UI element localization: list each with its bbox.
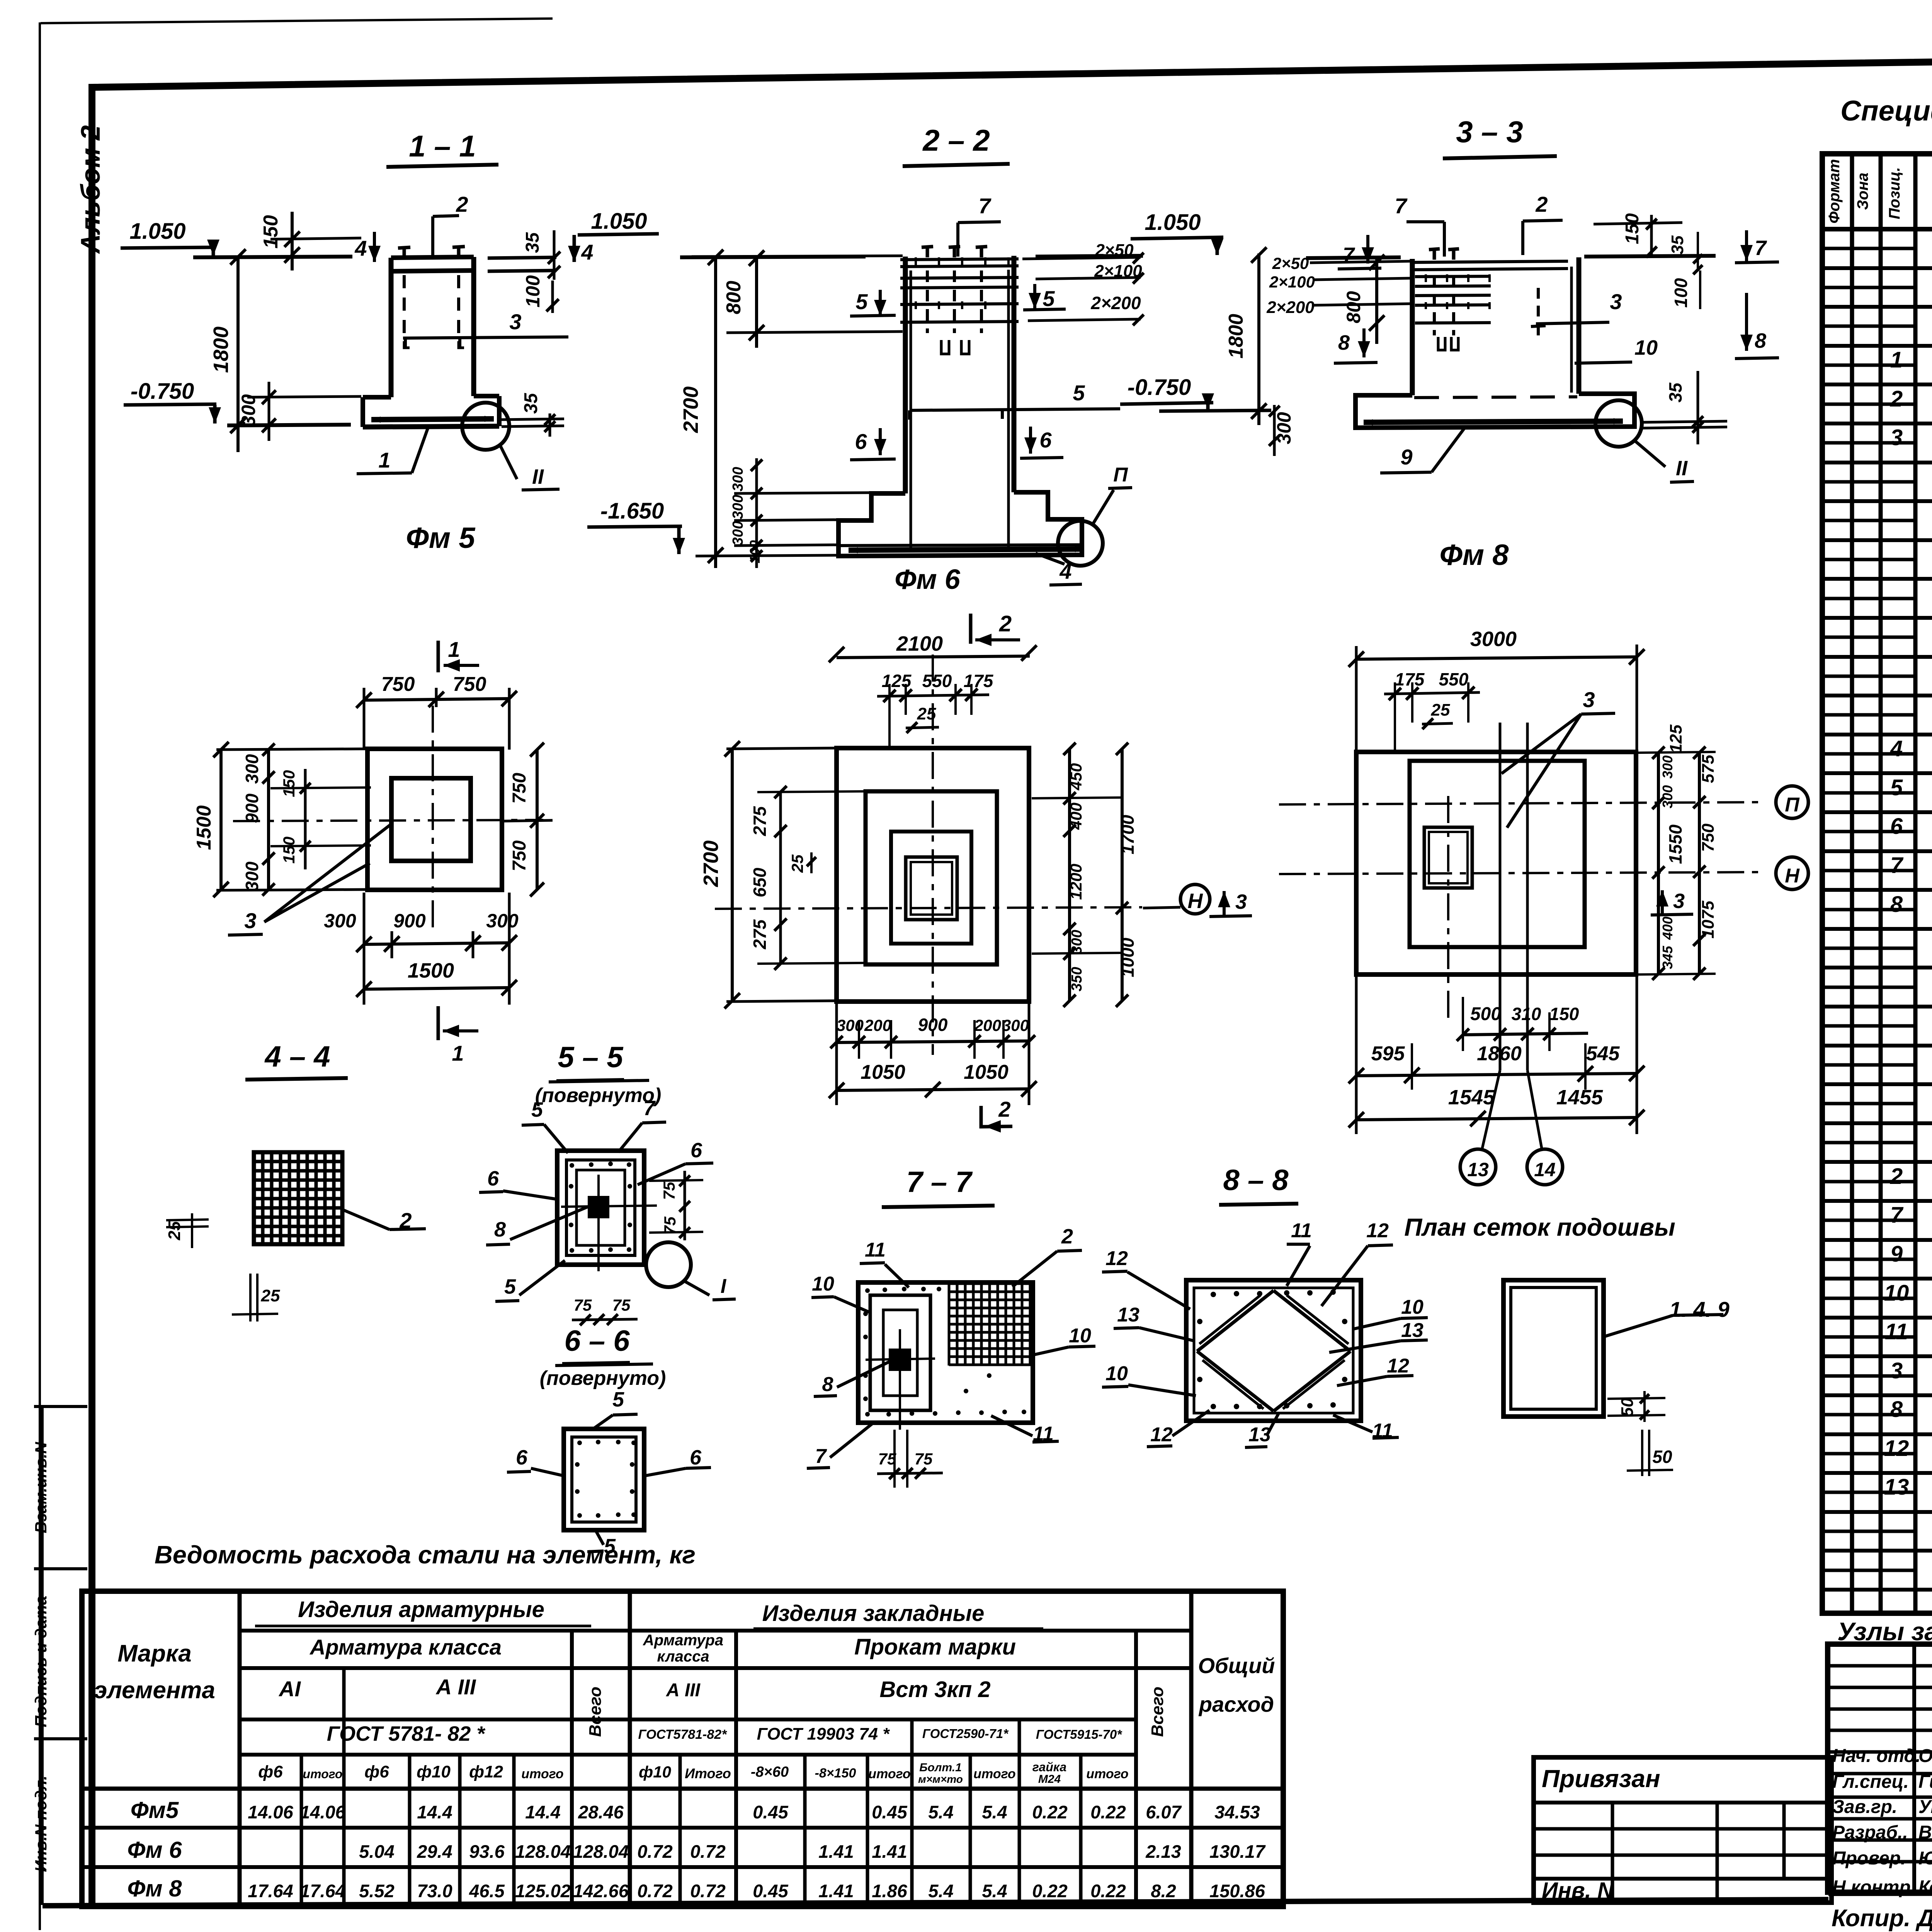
svg-text:Спецификация элементов фундаме: Спецификация элементов фундаментов Фм5,Ф…: [1840, 95, 1932, 127]
svg-text:2100: 2100: [896, 632, 943, 655]
plan FM6 vertical axis: [932, 655, 934, 1055]
svg-text:5.4: 5.4: [928, 1802, 953, 1822]
detail 8-8 outer rect: [1186, 1280, 1361, 1421]
svg-text:2: 2: [1535, 192, 1548, 216]
svg-text:5.52: 5.52: [359, 1881, 394, 1901]
svg-text:3000: 3000: [1470, 628, 1517, 651]
detail 8-8 diamond braces: [1274, 1291, 1350, 1351]
detail circle II on 1-1: [462, 403, 509, 450]
svg-text:3: 3: [1890, 1358, 1903, 1383]
anchor hooks 2-2: [941, 340, 949, 354]
svg-text:2700: 2700: [699, 840, 723, 887]
svg-text:300: 300: [242, 861, 262, 891]
mesh C1-1 in footing: [371, 419, 494, 420]
detail 4-4 mesh square: [254, 1152, 342, 1244]
svg-text:8.2: 8.2: [1151, 1881, 1176, 1901]
svg-text:8: 8: [1890, 892, 1903, 917]
svg-text:итого: итого: [973, 1767, 1015, 1781]
svg-text:14.06: 14.06: [248, 1802, 293, 1822]
svg-text:10: 10: [812, 1273, 834, 1295]
detail 5-5 rebar dots: [570, 1163, 574, 1168]
svg-text:14.06: 14.06: [300, 1802, 345, 1822]
frame bottom line: [43, 1900, 1828, 1906]
section mark 6 right: [1029, 427, 1032, 454]
plan FM8 section mark 3 right: [1651, 914, 1693, 915]
svg-text:4: 4: [581, 240, 593, 264]
plan FM8 axis circle H: [1776, 857, 1808, 889]
svg-text:350: 350: [1069, 967, 1085, 991]
svg-text:650: 650: [750, 867, 770, 897]
plan FM8 middle rect: [1410, 761, 1585, 947]
svg-text:6: 6: [1890, 814, 1903, 839]
svg-text:73.0: 73.0: [417, 1881, 452, 1901]
section mark 4 right: [573, 235, 576, 262]
svg-text:12: 12: [1884, 1436, 1909, 1461]
svg-text:-0.750: -0.750: [131, 379, 194, 404]
plan FM6 right dim line outer: [1121, 748, 1124, 1002]
svg-text:итого: итого: [303, 1767, 343, 1781]
svg-text:ГОСТ 5781- 82 *: ГОСТ 5781- 82 *: [327, 1722, 486, 1745]
svg-text:2.13: 2.13: [1145, 1841, 1181, 1862]
svg-text:128.04: 128.04: [515, 1841, 571, 1862]
svg-text:2×100: 2×100: [1269, 273, 1315, 291]
anchor bolt top left: [403, 247, 406, 258]
plan FM6 horizontal axis H: [715, 907, 1142, 909]
svg-text:35: 35: [1665, 382, 1685, 403]
detail circle I on 5-5: [646, 1242, 691, 1287]
svg-text:Изделия закладные: Изделия закладные: [762, 1601, 985, 1626]
svg-text:345: 345: [1660, 946, 1675, 969]
svg-text:100: 100: [1671, 278, 1691, 308]
svg-text:Общий: Общий: [1198, 1653, 1275, 1678]
svg-text:545: 545: [1586, 1043, 1620, 1065]
svg-text:900: 900: [393, 910, 426, 932]
svg-text:35: 35: [1668, 235, 1687, 254]
detail 5-5 inner rect: [577, 1170, 625, 1245]
sheet outer scan edge top: [41, 19, 553, 23]
svg-text:300: 300: [1002, 1016, 1029, 1034]
svg-text:595: 595: [1371, 1043, 1405, 1065]
svg-text:150.86: 150.86: [1209, 1881, 1265, 1901]
detail circle P on 2-2: [1058, 521, 1103, 566]
svg-text:275: 275: [750, 806, 770, 836]
svg-text:275: 275: [750, 919, 770, 949]
svg-text:Болт.1: Болт.1: [919, 1761, 962, 1774]
svg-text:0.72: 0.72: [690, 1841, 725, 1862]
svg-text:400: 400: [1067, 803, 1085, 830]
svg-text:ф10: ф10: [639, 1763, 671, 1781]
svg-text:25: 25: [1431, 701, 1450, 719]
svg-text:1: 1: [1890, 347, 1903, 372]
detail 7-7 mesh grid: [948, 1284, 951, 1366]
svg-text:3: 3: [244, 908, 256, 933]
slab band lines top of FM8: [1414, 261, 1568, 262]
level line -0.750 on 2-2: [1159, 410, 1271, 411]
anchor bolt tops 3-3: [1433, 249, 1436, 260]
svg-text:Изделия арматурные: Изделия арматурные: [298, 1597, 544, 1622]
svg-text:35: 35: [522, 232, 543, 253]
svg-text:2×50: 2×50: [1272, 254, 1309, 272]
svg-text:8: 8: [822, 1373, 833, 1396]
svg-text:125: 125: [1667, 724, 1685, 753]
svg-text:(повернуто): (повернуто): [535, 1084, 662, 1107]
svg-text:750: 750: [509, 840, 530, 871]
svg-text:0.45: 0.45: [753, 1802, 788, 1822]
svg-text:5: 5: [1043, 286, 1055, 311]
svg-text:7: 7: [1755, 236, 1767, 260]
svg-text:1075: 1075: [1699, 901, 1718, 939]
svg-text:Величко: Величко: [1918, 1822, 1932, 1843]
steel table outer frame: [82, 1591, 1283, 1906]
anchor bolt dashed left: [403, 275, 406, 341]
detail 7-7 outer square: [858, 1282, 1033, 1423]
detail 7-7 cross lines: [899, 1329, 901, 1430]
svg-text:3 – 3: 3 – 3: [1456, 115, 1523, 149]
svg-text:300: 300: [730, 521, 746, 545]
svg-text:П: П: [1113, 464, 1128, 486]
svg-text:1.050: 1.050: [1145, 210, 1201, 235]
svg-text:-8×60: -8×60: [751, 1764, 789, 1780]
svg-text:2: 2: [998, 1097, 1010, 1121]
svg-text:34.53: 34.53: [1214, 1802, 1260, 1822]
svg-text:1800: 1800: [209, 327, 233, 373]
svg-text:10: 10: [1105, 1362, 1128, 1385]
svg-text:50: 50: [1618, 1398, 1637, 1417]
svg-text:7: 7: [1395, 194, 1408, 218]
plan FM6 column rect: [906, 857, 957, 920]
plan FM8 right dims col 1: [1657, 752, 1660, 975]
svg-text:750: 750: [1699, 823, 1718, 852]
svg-text:300: 300: [1069, 930, 1085, 954]
svg-text:1.41: 1.41: [872, 1841, 907, 1862]
svg-text:итого: итого: [521, 1767, 563, 1781]
svg-text:Итого: Итого: [685, 1765, 731, 1781]
detail 5-5 black square: [588, 1196, 609, 1218]
svg-text:7: 7: [1890, 853, 1904, 878]
svg-text:0.45: 0.45: [872, 1802, 907, 1822]
plan FM8 bar line 14: [1526, 723, 1529, 1070]
svg-text:128.04: 128.04: [573, 1841, 629, 1862]
svg-text:1550: 1550: [1665, 824, 1685, 864]
svg-text:7: 7: [1890, 1202, 1904, 1228]
plan FM8 right dims col 2: [1698, 752, 1701, 975]
ground line left of footing: [227, 425, 351, 425]
anchor dashed bars in 2-2: [926, 270, 929, 333]
svg-text:125: 125: [882, 671, 912, 691]
foundation FM5 column outline: [391, 257, 474, 258]
svg-text:300: 300: [238, 394, 259, 427]
svg-text:125.02: 125.02: [515, 1881, 571, 1901]
svg-text:900: 900: [918, 1015, 948, 1035]
svg-text:75: 75: [915, 1450, 933, 1468]
svg-text:II: II: [1676, 457, 1688, 480]
svg-text:Разраб..: Разраб..: [1832, 1822, 1908, 1843]
svg-text:75: 75: [660, 1182, 678, 1200]
svg-text:Инв. N: Инв. N: [1542, 1878, 1614, 1903]
detail 5-5 cross lines: [597, 1175, 600, 1271]
steel table verticals: [238, 1591, 242, 1906]
svg-text:1.050: 1.050: [129, 219, 185, 244]
title block stamp rows: [1828, 1664, 1932, 1668]
svg-text:10: 10: [1069, 1325, 1091, 1347]
svg-text:8: 8: [494, 1218, 506, 1241]
svg-text:310: 310: [1512, 1004, 1541, 1024]
svg-text:3: 3: [1673, 889, 1685, 913]
svg-text:750: 750: [509, 773, 530, 804]
svg-text:Ведомость расхода стали на эле: Ведомость расхода стали на элемент, кг: [155, 1541, 696, 1569]
svg-text:Взам.инв.N: Взам.инв.N: [32, 1441, 50, 1533]
ground level line left of 1-1: [193, 257, 352, 257]
svg-text:2700: 2700: [679, 386, 702, 433]
svg-text:1700: 1700: [1117, 815, 1138, 854]
svg-text:класса: класса: [657, 1648, 709, 1665]
svg-text:1500: 1500: [193, 805, 215, 850]
ground line right of 2-2: [1036, 256, 1143, 257]
svg-text:Привязан: Привязан: [1542, 1765, 1660, 1793]
spec table narrow column extra lines: [1822, 247, 1915, 250]
svg-text:12: 12: [1387, 1355, 1409, 1377]
svg-text:11: 11: [1291, 1219, 1312, 1242]
sheet outer scan edge left: [39, 22, 41, 1930]
svg-text:Арматура класса: Арматура класса: [309, 1635, 502, 1659]
svg-text:450: 450: [1067, 763, 1085, 791]
svg-text:1: 1: [448, 637, 460, 662]
plan FM5 center axis horizontal: [233, 820, 543, 821]
ground line left of 2-2: [680, 257, 866, 257]
svg-text:1050: 1050: [861, 1061, 905, 1083]
svg-text:150: 150: [260, 215, 282, 249]
svg-text:(повернуто): (повернуто): [540, 1367, 666, 1389]
svg-text:0.45: 0.45: [753, 1881, 788, 1901]
svg-text:м×м×то: м×м×то: [918, 1773, 963, 1785]
svg-text:Нач. отд.: Нач. отд.: [1832, 1746, 1921, 1766]
svg-text:9: 9: [1890, 1242, 1903, 1267]
svg-text:2 – 2: 2 – 2: [922, 123, 990, 157]
left strip divider 2: [34, 1567, 87, 1570]
svg-text:Узлы замаркированы по серии: Узлы замаркированы по серии 1.412.1- 6. …: [1837, 1617, 1932, 1646]
privyazan table row line: [1534, 1801, 1832, 1804]
svg-text:8: 8: [1890, 1397, 1903, 1422]
svg-text:Фм 6: Фм 6: [895, 564, 960, 595]
svg-text:300: 300: [242, 754, 262, 784]
svg-text:142.66: 142.66: [573, 1881, 629, 1901]
plan FM6 inner rect: [891, 832, 971, 944]
svg-text:12: 12: [1150, 1423, 1173, 1446]
svg-text:Фм 6: Фм 6: [127, 1837, 182, 1863]
steel table data row lines: [82, 1826, 1283, 1830]
svg-text:75: 75: [612, 1296, 631, 1314]
svg-text:130.17: 130.17: [1209, 1841, 1266, 1862]
svg-text:17.64: 17.64: [300, 1881, 345, 1901]
svg-text:9: 9: [1400, 445, 1412, 469]
svg-text:Фм 8: Фм 8: [1440, 539, 1509, 571]
svg-text:Арматура: Арматура: [643, 1632, 723, 1649]
ground line right of 3-3: [1584, 256, 1716, 257]
svg-text:5.4: 5.4: [982, 1802, 1007, 1822]
svg-text:4: 4: [354, 236, 367, 260]
plan FM5 outer square: [367, 749, 502, 890]
svg-text:Формат: Формат: [1826, 159, 1843, 224]
svg-text:5: 5: [855, 289, 868, 314]
svg-text:25: 25: [788, 854, 806, 873]
svg-text:5.4: 5.4: [928, 1881, 953, 1901]
svg-text:ф10: ф10: [417, 1762, 451, 1781]
svg-text:А III: А III: [435, 1675, 476, 1699]
svg-text:II: II: [532, 465, 544, 488]
mesh bars top of FM8 column: [1415, 276, 1491, 277]
svg-text:300: 300: [1660, 755, 1675, 779]
svg-text:5: 5: [531, 1098, 543, 1121]
section mark 7 right: [1745, 230, 1748, 261]
svg-text:11: 11: [865, 1239, 886, 1261]
svg-text:4: 4: [1890, 736, 1903, 761]
svg-text:итого: итого: [868, 1767, 910, 1781]
section mark 5 right: [1033, 284, 1036, 309]
svg-text:25: 25: [165, 1221, 184, 1240]
svg-text:6: 6: [487, 1167, 499, 1190]
svg-text:0.22: 0.22: [1090, 1881, 1126, 1901]
plan FM5 section mark 1 bottom: [437, 1006, 440, 1040]
svg-text:1455: 1455: [1556, 1086, 1603, 1109]
svg-text:1500: 1500: [408, 959, 454, 982]
svg-text:13: 13: [1467, 1159, 1489, 1180]
plan FM8 axis circle P: [1776, 786, 1808, 818]
svg-text:1000: 1000: [1117, 937, 1138, 977]
anchor bolt dashed right: [457, 275, 460, 341]
svg-text:550: 550: [1439, 669, 1469, 689]
svg-text:1860: 1860: [1477, 1043, 1522, 1065]
svg-text:гайка: гайка: [1032, 1760, 1066, 1774]
foundation FM8 footing: [1355, 394, 1634, 428]
plan FM8 position circle 13: [1460, 1149, 1496, 1185]
svg-text:14: 14: [1534, 1159, 1556, 1180]
svg-text:14.4: 14.4: [417, 1802, 452, 1822]
svg-text:5: 5: [504, 1275, 516, 1298]
svg-text:1200: 1200: [1067, 864, 1085, 900]
mesh C-4 bottom of footing: [849, 549, 1084, 550]
svg-text:Позиц.: Позиц.: [1886, 167, 1903, 219]
plan FM6 axis circle H: [1180, 884, 1210, 914]
column FM8 inner face line: [1570, 267, 1573, 393]
svg-text:35: 35: [521, 393, 541, 414]
plan FM5 center axis vertical: [432, 706, 434, 930]
svg-text:1 – 1: 1 – 1: [409, 129, 476, 163]
svg-text:Онищенко: Онищенко: [1918, 1746, 1932, 1766]
spec table header bottom: [1822, 227, 1932, 231]
svg-text:4 – 4: 4 – 4: [264, 1040, 330, 1073]
detail 8-8 dots: [1211, 1292, 1216, 1297]
plan FM8 column rect: [1424, 827, 1472, 888]
svg-text:8: 8: [1338, 331, 1350, 354]
svg-text:14.4: 14.4: [525, 1802, 560, 1822]
svg-text:ф12: ф12: [469, 1762, 503, 1781]
svg-text:12: 12: [1366, 1219, 1389, 1242]
svg-text:Зав.гр.: Зав.гр.: [1832, 1797, 1897, 1817]
spec table outer frame: [1822, 154, 1932, 1613]
svg-text:0.22: 0.22: [1032, 1881, 1067, 1901]
detail 7-7 black square: [889, 1349, 911, 1371]
svg-text:13: 13: [1401, 1319, 1423, 1342]
anchor dashed bars 3-3: [1433, 277, 1436, 335]
slab extension lines right of 1-1: [488, 257, 556, 258]
foundation FM6 footing steps: [838, 492, 1082, 556]
svg-text:2: 2: [1890, 1164, 1903, 1189]
svg-text:Гидман: Гидман: [1918, 1772, 1932, 1792]
svg-text:1.050: 1.050: [591, 209, 647, 234]
svg-text:29.4: 29.4: [417, 1841, 452, 1862]
detail 5-5 outer rect: [557, 1151, 644, 1265]
plan FM8 outer rect: [1356, 752, 1636, 975]
column FM6 inner face lines: [910, 270, 912, 549]
svg-text:Н: Н: [1785, 865, 1800, 887]
svg-text:8 – 8: 8 – 8: [1223, 1164, 1289, 1197]
detail 7-7 dots: [865, 1288, 870, 1293]
svg-text:75: 75: [574, 1296, 592, 1314]
svg-text:2: 2: [999, 611, 1012, 636]
svg-text:750: 750: [381, 673, 415, 696]
plan FM8 axis P horizontal: [1279, 802, 1762, 804]
svg-text:800: 800: [1343, 291, 1364, 323]
svg-text:93.6: 93.6: [469, 1841, 505, 1862]
title block stamp verticals: [1912, 1644, 1916, 1892]
foundation FM5 footing: [363, 395, 391, 400]
svg-text:150: 150: [280, 837, 298, 864]
plan FM6 outer rect: [837, 748, 1029, 1002]
detail 6-6 rect: [564, 1429, 644, 1530]
svg-text:Подпись и дата: Подпись и дата: [32, 1596, 50, 1727]
svg-text:0.72: 0.72: [637, 1881, 672, 1901]
mesh CH-6AI horizontal bars: [900, 259, 1019, 260]
svg-text:13: 13: [1248, 1423, 1271, 1446]
svg-text:150: 150: [1622, 213, 1643, 244]
plan setok rect: [1503, 1280, 1604, 1417]
privyazan table frame: [1534, 1757, 1832, 1903]
svg-text:-8×150: -8×150: [815, 1766, 856, 1781]
svg-text:200: 200: [864, 1016, 891, 1034]
svg-text:6: 6: [690, 1139, 702, 1162]
anchor hooks 3-3: [1438, 337, 1445, 350]
svg-text:H: H: [1188, 889, 1203, 913]
svg-text:3: 3: [1235, 890, 1247, 913]
ground line left of 3-3: [1306, 257, 1401, 258]
svg-text:Марка: Марка: [117, 1640, 191, 1667]
svg-text:ГОСТ 19903 74 *: ГОСТ 19903 74 *: [757, 1725, 890, 1743]
svg-text:2: 2: [1890, 386, 1903, 412]
svg-text:400: 400: [1660, 917, 1675, 940]
svg-text:11: 11: [1885, 1319, 1908, 1344]
svg-text:1.41: 1.41: [818, 1841, 854, 1862]
plan FM6 middle rect: [866, 791, 997, 964]
svg-text:6 – 6: 6 – 6: [564, 1325, 630, 1357]
svg-text:-1.650: -1.650: [600, 498, 664, 524]
svg-text:Фм 5: Фм 5: [406, 522, 476, 554]
svg-text:5: 5: [612, 1388, 624, 1411]
svg-text:ГОСТ2590-71*: ГОСТ2590-71*: [922, 1726, 1009, 1741]
svg-text:расход: расход: [1198, 1692, 1274, 1716]
svg-text:Фм 8: Фм 8: [127, 1876, 182, 1901]
svg-text:5.4: 5.4: [982, 1881, 1007, 1901]
svg-text:12: 12: [1105, 1247, 1128, 1270]
svg-text:150: 150: [280, 770, 298, 797]
svg-text:50: 50: [1652, 1447, 1672, 1467]
svg-text:М24: М24: [1038, 1773, 1061, 1786]
svg-text:А III: А III: [666, 1680, 701, 1701]
svg-text:1050: 1050: [964, 1061, 1009, 1083]
spec table column lines: [1850, 154, 1854, 1613]
svg-text:5: 5: [1073, 381, 1085, 405]
svg-text:100: 100: [522, 275, 544, 308]
svg-text:575: 575: [1699, 755, 1718, 783]
